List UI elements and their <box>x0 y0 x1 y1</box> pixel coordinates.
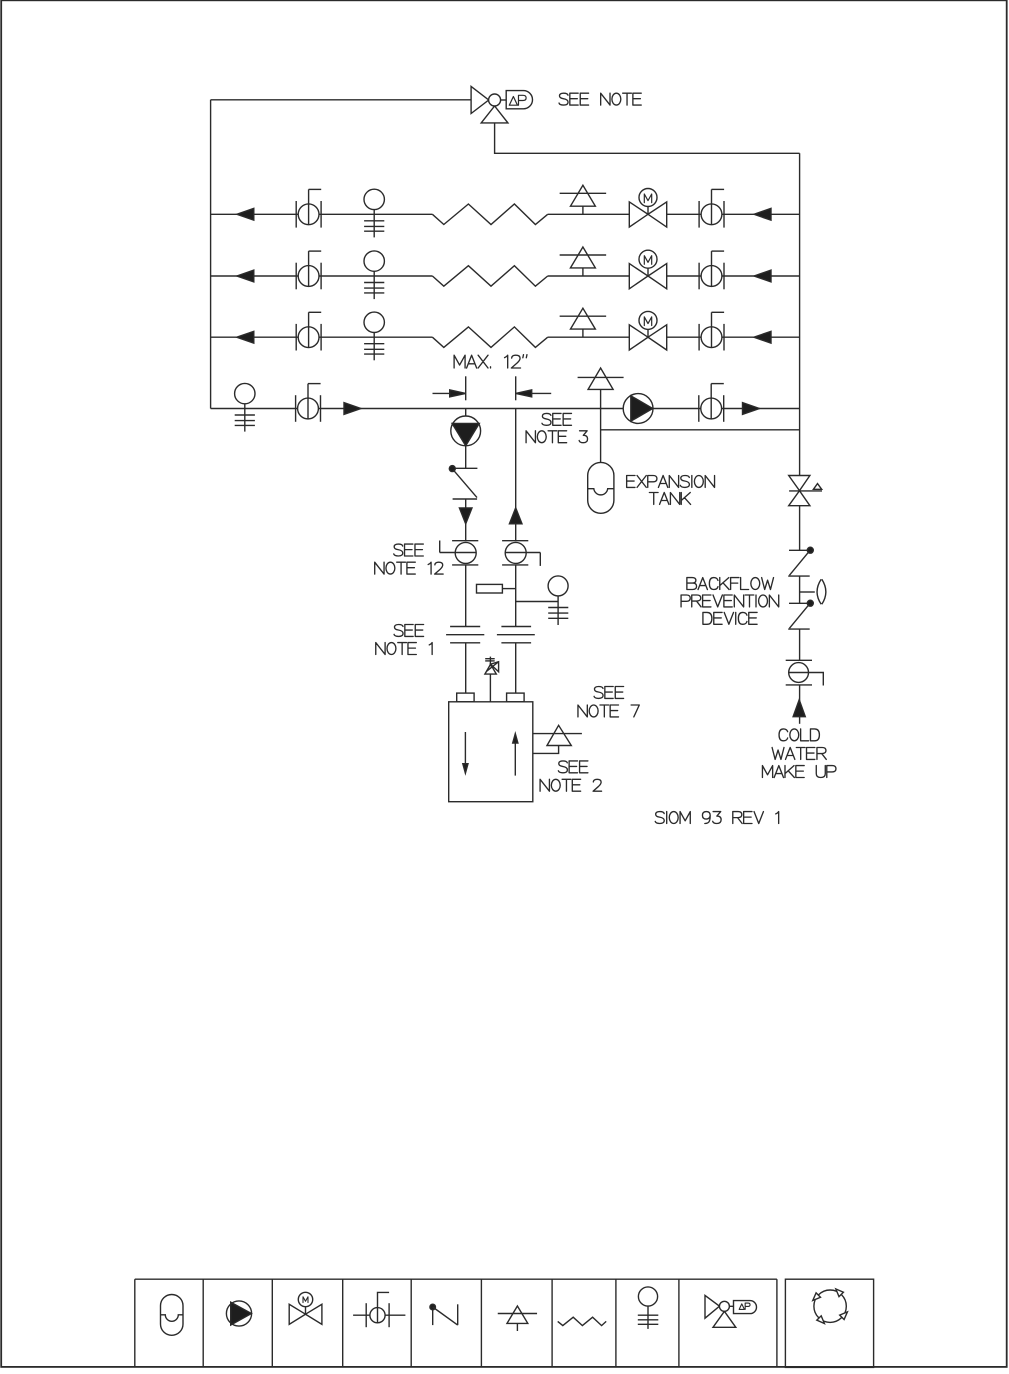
wire supply header <box>211 408 800 410</box>
flow arrow drop1 down <box>459 508 472 524</box>
wire drop1 to boiler <box>465 643 467 693</box>
label SEE NOTE 7 <box>578 687 639 717</box>
label MAX. 12" <box>454 355 527 368</box>
ball valve row 1 left <box>296 189 321 227</box>
legend check valve <box>430 1304 458 1325</box>
wire drop2 upper <box>515 409 517 541</box>
wire top return main <box>211 99 472 101</box>
dimension MAX 12in <box>433 376 552 400</box>
air vent boiler side <box>533 725 582 753</box>
label COLD WATER MAKE UP <box>762 729 836 778</box>
check valve backflow 1 <box>788 547 813 576</box>
legend air vent <box>498 1306 537 1331</box>
flow arrow into row 1 <box>754 208 771 220</box>
wire drop1 lower <box>465 565 467 627</box>
air vent row 2 <box>560 247 607 276</box>
legend motor valve <box>289 1292 322 1324</box>
wire coil branch row 1 <box>211 213 800 215</box>
ball valve drop1 <box>440 541 479 565</box>
motor valve row 2 <box>629 250 666 289</box>
sensor port row 3 <box>364 312 384 360</box>
coil row 1 <box>432 204 547 225</box>
wire between check valves <box>799 576 801 603</box>
check valve drop1 <box>449 466 477 499</box>
flow arrow left row 2 <box>237 270 254 282</box>
wire makeup mid <box>799 629 801 660</box>
boiler stub left <box>457 693 474 702</box>
wire drop1 mid <box>465 499 467 541</box>
legend sensor port <box>638 1287 659 1329</box>
ball valve row 2 right <box>699 251 724 289</box>
ball valve header right <box>699 384 724 422</box>
sensor port row 2 <box>364 251 384 299</box>
label EXPANSION TANK <box>627 476 715 505</box>
legend table cells <box>135 1279 777 1367</box>
flow arrow left row 1 <box>237 208 254 220</box>
legend coil <box>558 1317 607 1325</box>
wire right bus <box>799 153 801 475</box>
legend rotation symbol <box>813 1289 848 1324</box>
legend pump <box>226 1301 251 1326</box>
relief valve boiler <box>485 657 499 702</box>
ball valve makeup <box>786 660 824 685</box>
check valve backflow 2 <box>788 600 813 629</box>
flow arrow into row 3 <box>754 331 771 343</box>
flow arrow into row 2 <box>754 270 771 282</box>
ball valve header left <box>296 384 321 422</box>
legend expansion tank <box>161 1295 184 1336</box>
label SEE NOTE 12 <box>375 544 443 574</box>
flow arrow left row 3 <box>237 331 254 343</box>
flow arrow header left <box>344 403 361 415</box>
pump drop1 <box>451 416 481 446</box>
wire drop2 lower <box>515 565 517 627</box>
wire from DP sensor to right bus <box>495 123 800 153</box>
legend differential pressure sensor <box>705 1295 757 1327</box>
flow arrow makeup up <box>793 700 805 717</box>
relief port backflow <box>800 579 826 604</box>
coil row 2 <box>432 266 547 287</box>
flow arrow drop2 up <box>509 508 522 524</box>
motor valve row 3 <box>629 311 666 350</box>
ball valve row 2 left <box>296 251 321 289</box>
boiler flow arrows <box>463 732 518 776</box>
hose end drain valve <box>789 476 822 506</box>
boiler stub right <box>507 693 524 702</box>
wire expansion tank drop <box>600 409 602 463</box>
union drop1 <box>446 627 484 643</box>
wire drop1 upper <box>465 409 467 469</box>
air vent row 3 <box>560 308 607 337</box>
motor valve row 1 <box>629 189 666 228</box>
union drop2 <box>497 627 535 643</box>
air vent row 1 <box>560 185 607 214</box>
wire coil branch row 2 <box>211 275 800 277</box>
label SIOM 93 REV 1 <box>655 812 778 824</box>
label BACKFLOW PREVENTION DEVICE <box>681 578 779 625</box>
wire drop2 to boiler <box>515 643 517 693</box>
differential pressure sensor DP <box>471 86 532 123</box>
ball valve row 3 left <box>296 312 321 350</box>
label SEE NOTE 1 <box>376 625 432 655</box>
legend ball valve <box>353 1292 405 1327</box>
label SEE NOTE <box>559 93 641 105</box>
wire makeup branch <box>601 429 800 431</box>
wire makeup upper <box>799 506 801 551</box>
thermometer well drop2 <box>477 584 516 593</box>
sensor port header <box>235 383 255 431</box>
ball valve row 3 right <box>699 312 724 350</box>
sensor port row 1 <box>364 189 384 237</box>
wire coil branch row 3 <box>211 336 800 338</box>
wire left bus <box>210 100 212 409</box>
pump header <box>623 394 653 424</box>
coil row 3 <box>432 327 547 348</box>
label SEE NOTE 2 <box>540 761 601 791</box>
label SEE NOTE 3 <box>526 413 587 442</box>
air vent header <box>578 368 624 409</box>
boiler <box>449 702 533 802</box>
wire makeup lower <box>799 685 801 724</box>
ball valve row 1 right <box>699 189 724 227</box>
sensor port drop2 <box>516 576 569 625</box>
flow arrow header right <box>743 403 760 415</box>
ball valve drop2 <box>502 541 540 566</box>
legend box rotation <box>785 1279 873 1367</box>
expansion tank <box>588 462 614 513</box>
